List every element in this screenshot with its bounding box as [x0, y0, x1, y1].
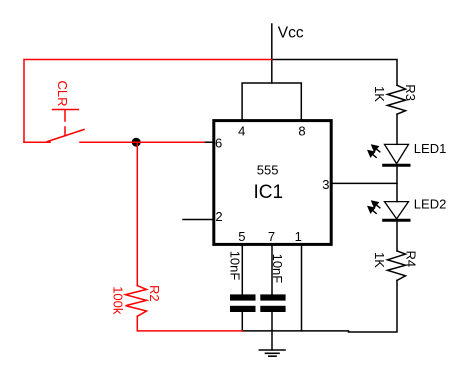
- svg-text:1K: 1K: [372, 86, 387, 102]
- svg-text:2: 2: [215, 209, 222, 224]
- svg-text:R4: R4: [404, 251, 419, 268]
- svg-text:1: 1: [295, 229, 302, 244]
- svg-text:10nF: 10nF: [228, 251, 243, 281]
- svg-text:R2: R2: [147, 285, 162, 302]
- svg-text:IC1: IC1: [254, 182, 284, 203]
- svg-text:6: 6: [215, 135, 222, 150]
- svg-text:R3: R3: [403, 84, 418, 101]
- svg-text:LED2: LED2: [414, 196, 447, 211]
- svg-text:4: 4: [238, 123, 245, 138]
- svg-text:Vcc: Vcc: [278, 24, 304, 41]
- svg-text:1K: 1K: [372, 252, 387, 268]
- svg-text:3: 3: [322, 177, 329, 192]
- svg-text:10nF: 10nF: [270, 254, 285, 284]
- svg-text:555: 555: [257, 162, 279, 177]
- svg-text:LED1: LED1: [414, 141, 447, 156]
- svg-text:7: 7: [268, 229, 275, 244]
- svg-text:8: 8: [298, 123, 305, 138]
- svg-text:5: 5: [238, 229, 245, 244]
- svg-text:100k: 100k: [110, 286, 125, 315]
- svg-text:CLR: CLR: [55, 81, 70, 107]
